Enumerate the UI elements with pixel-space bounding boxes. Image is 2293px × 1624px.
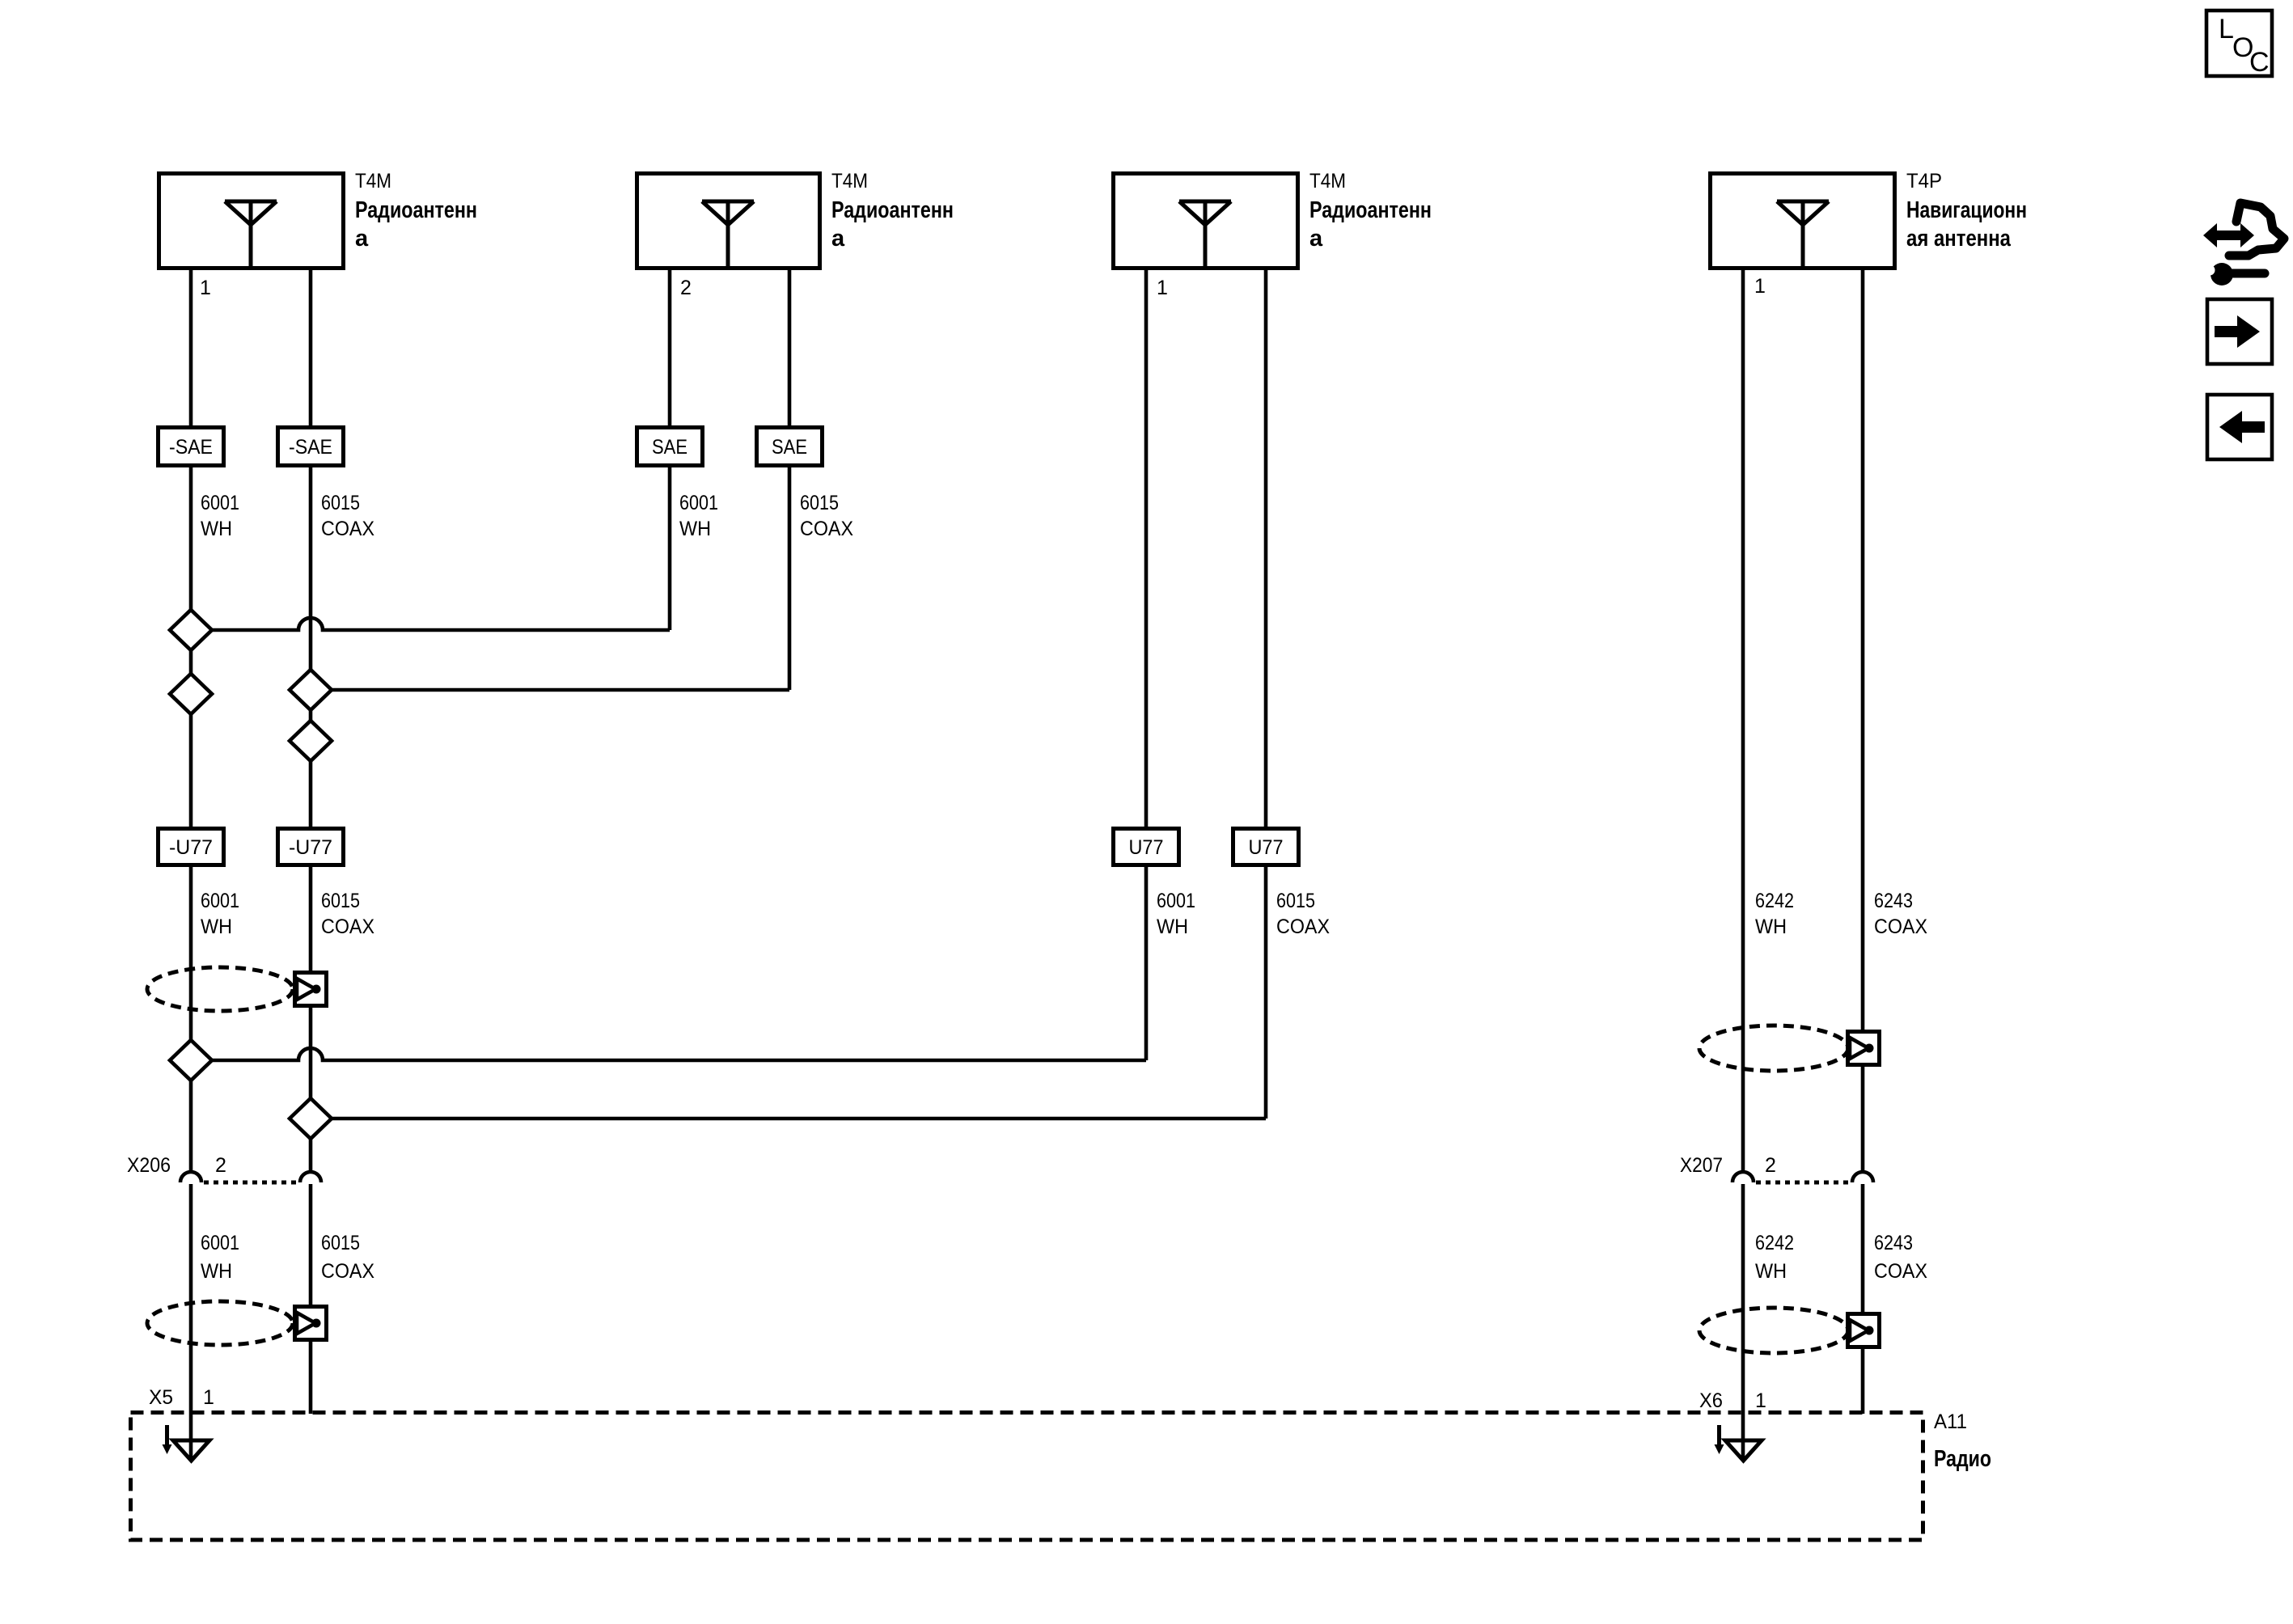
label T4P (1906, 170, 2027, 252)
svg-text:Радио: Радио (1934, 1446, 1991, 1472)
svg-text:SAE: SAE (652, 436, 687, 459)
svg-text:6242: 6242 (1755, 1232, 1794, 1254)
svg-text:X6: X6 (1699, 1389, 1723, 1412)
svg-text:C: C (2249, 47, 2270, 78)
inline connector U77 on antenna 3 WH (1114, 829, 1179, 865)
wire 6001 WH (radio antenna 2 drop) (668, 270, 672, 630)
wire 6001 WH (radio antenna 1, pin 1 to radio X5) (189, 270, 193, 1461)
wire label 6001 WH row C (201, 1232, 239, 1283)
wire 6243 COAX (navigation antenna to radio) (1861, 270, 1865, 1414)
wire 6015 COAX (radio antenna 2 drop) (788, 270, 792, 690)
svg-text:6001: 6001 (1157, 890, 1195, 912)
wire 6015 COAX (radio antenna 3 drop) (1264, 270, 1268, 1119)
wire label 6015 COAX row A (321, 492, 374, 540)
svg-text:T4M: T4M (355, 170, 391, 192)
splice diamond on 6001 inline (170, 674, 212, 714)
svg-text:X5: X5 (149, 1386, 173, 1409)
svg-text:-U77: -U77 (289, 836, 332, 859)
splice diamond on 6015 at bus 2 (290, 670, 332, 710)
svg-text:6001: 6001 (201, 890, 239, 912)
svg-text:2: 2 (680, 277, 692, 299)
inline connector -SAE on 6015 (278, 428, 344, 466)
svg-text:а: а (355, 226, 369, 252)
svg-text:1: 1 (1755, 1389, 1766, 1412)
svg-text:Навигационн: Навигационн (1906, 197, 2027, 223)
svg-text:6015: 6015 (1276, 890, 1315, 912)
inline connector SAE on antenna 2 WH (637, 428, 703, 466)
shield symbol on 6001/6015 upper (147, 967, 327, 1011)
wire splice bus 4 to antenna 3 COAX (311, 1117, 1266, 1121)
svg-text:COAX: COAX (800, 518, 853, 540)
antenna T4P navigation box (1711, 174, 1895, 269)
wire 6001 WH (radio antenna 3 drop) (1144, 270, 1149, 1060)
wire 6242 WH (navigation antenna to radio X6) (1741, 270, 1745, 1461)
backward arrow legend box (2207, 395, 2272, 459)
svg-text:U77: U77 (1129, 836, 1164, 859)
svg-text:SAE: SAE (772, 436, 807, 459)
wire label 6001 WH antenna 3 (1157, 890, 1195, 938)
wire label 6015 COAX row C (321, 1232, 374, 1283)
inline connector SAE on antenna 2 COAX (757, 428, 823, 466)
inline connector -U77 on 6015 (278, 829, 344, 865)
shield symbol on 6242/6243 upper (1699, 1026, 1880, 1071)
wire label 6001 WH antenna 2 (679, 492, 718, 540)
harness routing icon (2201, 203, 2284, 285)
svg-text:WH: WH (1755, 1260, 1787, 1283)
svg-text:T4M: T4M (1309, 170, 1346, 192)
forward arrow legend box (2207, 299, 2272, 364)
svg-text:Радиоантенн: Радиоантенн (355, 197, 477, 223)
svg-text:WH: WH (201, 1260, 232, 1283)
svg-text:WH: WH (679, 518, 711, 540)
svg-text:U77: U77 (1249, 836, 1284, 859)
svg-text:6242: 6242 (1755, 890, 1794, 912)
svg-text:6015: 6015 (321, 890, 360, 912)
svg-text:6015: 6015 (321, 1232, 360, 1254)
inline connector -SAE on 6001 (159, 428, 224, 466)
svg-text:X206: X206 (127, 1154, 171, 1177)
ground arrow symbol at X5 (163, 1425, 210, 1461)
svg-text:COAX: COAX (1874, 1260, 1927, 1283)
svg-text:6243: 6243 (1874, 1232, 1913, 1254)
svg-text:T4P: T4P (1906, 170, 1942, 192)
wire 6015 COAX (radio antenna 1 shield to radio) (309, 270, 313, 1414)
svg-text:T4M: T4M (831, 170, 868, 192)
splice diamond on 6001 at bus 1 (170, 610, 212, 650)
svg-text:а: а (831, 226, 845, 252)
wire label 6001 WH row A (201, 492, 239, 540)
wire splice bus 2 to antenna 2 COAX (311, 688, 789, 692)
splice diamond on 6001 at bus 3 (170, 1040, 212, 1081)
svg-text:1: 1 (1157, 277, 1168, 299)
svg-text:Радиоантенн: Радиоантенн (1309, 197, 1432, 223)
svg-text:а: а (1309, 226, 1323, 252)
antenna T4M #1 box (159, 174, 344, 269)
inline connector -U77 on 6001 (159, 829, 224, 865)
svg-text:-SAE: -SAE (169, 436, 213, 459)
splice diamond on 6015 inline (290, 721, 332, 761)
svg-text:ая антенна: ая антенна (1906, 226, 2012, 252)
label T4M #2 (831, 170, 954, 252)
label T4M #3 (1309, 170, 1432, 252)
svg-text:2: 2 (1765, 1154, 1776, 1177)
svg-text:COAX: COAX (321, 916, 374, 938)
wire label 6001 WH row B (201, 890, 239, 938)
LOC legend box (2206, 11, 2272, 78)
shield symbol on 6001/6015 lower (147, 1301, 327, 1345)
svg-text:6001: 6001 (679, 492, 718, 514)
svg-text:6001: 6001 (201, 492, 239, 514)
svg-text:1: 1 (200, 277, 211, 299)
label A11 Радио (1934, 1410, 1991, 1472)
shield symbol on 6242/6243 lower (1699, 1308, 1880, 1353)
wire label 6242 WH row C (1755, 1232, 1794, 1283)
inline connector X207 (1732, 1172, 1873, 1182)
svg-text:WH: WH (201, 518, 232, 540)
wire label 6243 COAX row B (1874, 890, 1927, 938)
wire splice bus 3 to antenna 3 WH with hop over 6015 (191, 1048, 1146, 1060)
wire label 6015 COAX antenna 2 (800, 492, 853, 540)
svg-text:6243: 6243 (1874, 890, 1913, 912)
svg-text:WH: WH (1157, 916, 1188, 938)
label T4M #1 (355, 170, 477, 252)
ground arrow symbol at X6 (1715, 1425, 1762, 1461)
wire label 6015 COAX antenna 3 (1276, 890, 1330, 938)
inline connector X206 (180, 1172, 321, 1182)
svg-text:COAX: COAX (321, 1260, 374, 1283)
svg-text:-SAE: -SAE (289, 436, 332, 459)
svg-text:2: 2 (215, 1154, 226, 1177)
svg-text:WH: WH (1755, 916, 1787, 938)
svg-text:-U77: -U77 (169, 836, 213, 859)
wire label 6015 COAX row B (321, 890, 374, 938)
antenna T4M #2 box (637, 174, 820, 269)
svg-text:1: 1 (1754, 275, 1766, 298)
svg-text:Радиоантенн: Радиоантенн (831, 197, 954, 223)
svg-text:6001: 6001 (201, 1232, 239, 1254)
svg-text:A11: A11 (1934, 1410, 1967, 1433)
svg-text:6015: 6015 (800, 492, 839, 514)
radio A11 dashed box (131, 1413, 1923, 1541)
inline connector U77 on antenna 3 COAX (1233, 829, 1299, 865)
svg-text:6015: 6015 (321, 492, 360, 514)
wire label 6243 COAX row C (1874, 1232, 1927, 1283)
svg-text:COAX: COAX (1276, 916, 1330, 938)
antenna T4M #3 box (1114, 174, 1298, 269)
svg-text:COAX: COAX (1874, 916, 1927, 938)
svg-text:COAX: COAX (321, 518, 374, 540)
wire splice bus 1 to antenna 2 WH with hop over 6015 (191, 618, 670, 630)
svg-text:WH: WH (201, 916, 232, 938)
svg-text:1: 1 (203, 1386, 214, 1409)
wire label 6242 WH row B (1755, 890, 1794, 938)
splice diamond on 6015 at bus 4 (290, 1098, 332, 1139)
svg-text:X207: X207 (1680, 1154, 1723, 1177)
